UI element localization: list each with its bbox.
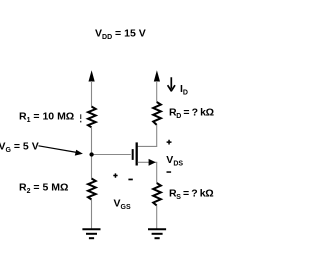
label + (VDS plus) — [167, 140, 172, 145]
svg-text:R2 = 5 MΩ: R2 = 5 MΩ — [19, 182, 68, 195]
label + (VGS plus) — [113, 173, 117, 177]
wire: R1 bottom to R2 top (through gate node) — [91, 127, 93, 178]
stray mark (exclamation-like) left of R1 — [80, 114, 81, 122]
arrow to VDD (left branch) — [89, 70, 95, 81]
resistor R1 (10 Mohm) zigzag — [88, 107, 96, 128]
wire: drain lead (corner to MOSFET channel) — [138, 145, 158, 147]
node G junction dot — [89, 152, 93, 156]
annotation arrow from VG label to node G — [39, 146, 83, 156]
transistor M1: source lead with arrow — [138, 159, 158, 166]
wire: RD bottom to drain corner — [156, 125, 158, 146]
wire: left branch VDD arrow to R1 top — [91, 81, 93, 107]
svg-text:RS = ? kΩ: RS = ? kΩ — [169, 188, 213, 201]
resistor RS (? kohm) zigzag — [153, 183, 161, 206]
resistor R2 (5 Mohm) zigzag — [88, 179, 96, 200]
wire: source corner down to RS top — [156, 162, 158, 183]
transistor M1: gate bar — [132, 149, 134, 160]
arrow to VDD (right branch) — [154, 70, 160, 81]
wire: RS bottom to right ground — [156, 206, 158, 229]
wire: gate node to MOSFET gate — [92, 154, 131, 156]
ground (left) — [82, 229, 100, 238]
transistor M1: channel bar — [136, 142, 138, 165]
wire: R2 bottom to left ground — [91, 200, 93, 229]
svg-text:RD = ? kΩ: RD = ? kΩ — [169, 107, 214, 120]
ground (right) — [148, 229, 166, 238]
label - (VGS minus) — [128, 179, 132, 181]
label - (VDS minus) — [167, 171, 172, 173]
wire: right branch VDD arrow to RD top — [156, 81, 158, 102]
resistor RD (? kohm) zigzag — [153, 102, 161, 125]
current ID direction arrow (down) — [168, 77, 175, 91]
